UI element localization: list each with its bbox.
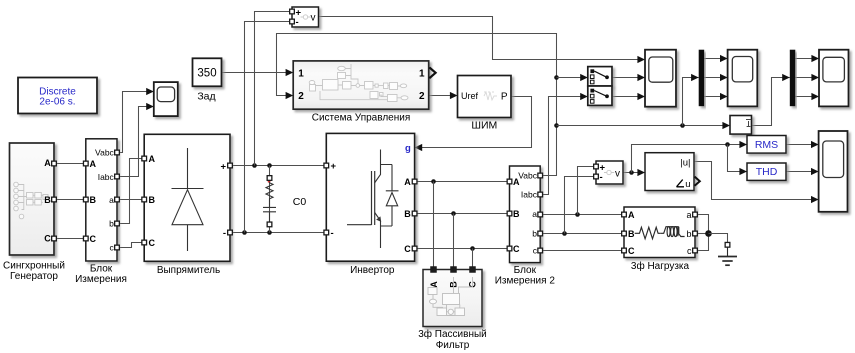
svg-text:B: B xyxy=(44,195,51,205)
svg-text:-: - xyxy=(296,17,299,28)
svg-text:A: A xyxy=(404,177,411,187)
svg-text:Зад: Зад xyxy=(197,91,215,103)
svg-text:b: b xyxy=(532,228,537,238)
svg-text:v: v xyxy=(311,12,316,23)
svg-text:+: + xyxy=(220,162,226,173)
svg-text:350: 350 xyxy=(197,68,216,80)
svg-text:C: C xyxy=(628,246,635,256)
svg-text:g: g xyxy=(405,143,411,154)
svg-text:a: a xyxy=(686,210,691,220)
svg-text:2: 2 xyxy=(419,91,425,102)
svg-text:Выпрямитель: Выпрямитель xyxy=(157,265,220,276)
svg-text:Блок: Блок xyxy=(514,265,537,276)
svg-text:c: c xyxy=(110,243,115,253)
svg-text:B: B xyxy=(513,209,520,219)
svg-text:RMS: RMS xyxy=(755,139,778,151)
svg-text:C: C xyxy=(513,244,520,254)
svg-text:Блок: Блок xyxy=(90,264,113,275)
svg-text:|u|: |u| xyxy=(680,158,690,169)
svg-text:2: 2 xyxy=(298,91,304,102)
svg-text:Инвертор: Инвертор xyxy=(350,265,395,276)
svg-text:u: u xyxy=(685,179,690,190)
svg-text:3ф Нагрузка: 3ф Нагрузка xyxy=(631,260,690,272)
svg-text:C: C xyxy=(90,234,97,244)
svg-text:C: C xyxy=(404,244,411,254)
svg-text:-: - xyxy=(223,228,226,239)
svg-text:A: A xyxy=(628,210,635,220)
svg-text:Vabc: Vabc xyxy=(518,171,537,181)
svg-text:3ф Пассивный: 3ф Пассивный xyxy=(418,328,487,340)
svg-text:2e-06 s.: 2e-06 s. xyxy=(39,97,75,108)
svg-text:B: B xyxy=(149,195,156,205)
svg-text:1: 1 xyxy=(298,69,304,80)
svg-text:-: - xyxy=(600,172,603,183)
svg-text:A: A xyxy=(44,158,51,168)
svg-text:1: 1 xyxy=(419,69,425,80)
svg-text:b: b xyxy=(686,229,691,239)
svg-text:-: - xyxy=(331,228,334,239)
svg-text:B: B xyxy=(90,195,97,205)
svg-text:Iabc: Iabc xyxy=(98,172,115,182)
svg-text:C0: C0 xyxy=(293,196,307,208)
svg-text:Vabc: Vabc xyxy=(95,148,114,158)
svg-text:A: A xyxy=(149,154,156,164)
svg-text:P: P xyxy=(501,91,508,102)
svg-text:A: A xyxy=(90,159,97,169)
svg-text:a: a xyxy=(532,209,537,219)
svg-text:ШИМ: ШИМ xyxy=(471,119,497,131)
svg-text:C: C xyxy=(44,233,51,243)
svg-text:Uref: Uref xyxy=(461,91,479,101)
svg-text:B: B xyxy=(628,229,635,239)
svg-text:A: A xyxy=(429,281,439,288)
svg-text:Генератор: Генератор xyxy=(10,271,58,282)
svg-text:a: a xyxy=(109,195,114,205)
svg-text:Iabc: Iabc xyxy=(521,190,538,200)
svg-text:Система Управления: Система Управления xyxy=(312,113,411,124)
svg-text:Сингхронный: Сингхронный xyxy=(3,260,65,271)
svg-text:Фильтр: Фильтр xyxy=(436,340,470,351)
svg-text:B: B xyxy=(404,209,411,219)
svg-text:+: + xyxy=(331,161,337,172)
svg-text:THD: THD xyxy=(756,166,778,178)
svg-text:Измерения 2: Измерения 2 xyxy=(495,275,556,286)
svg-text:c: c xyxy=(687,246,692,256)
svg-text:v: v xyxy=(615,168,620,179)
svg-text:Измерения: Измерения xyxy=(75,274,127,285)
svg-text:C: C xyxy=(149,238,156,248)
svg-text:b: b xyxy=(109,219,114,229)
